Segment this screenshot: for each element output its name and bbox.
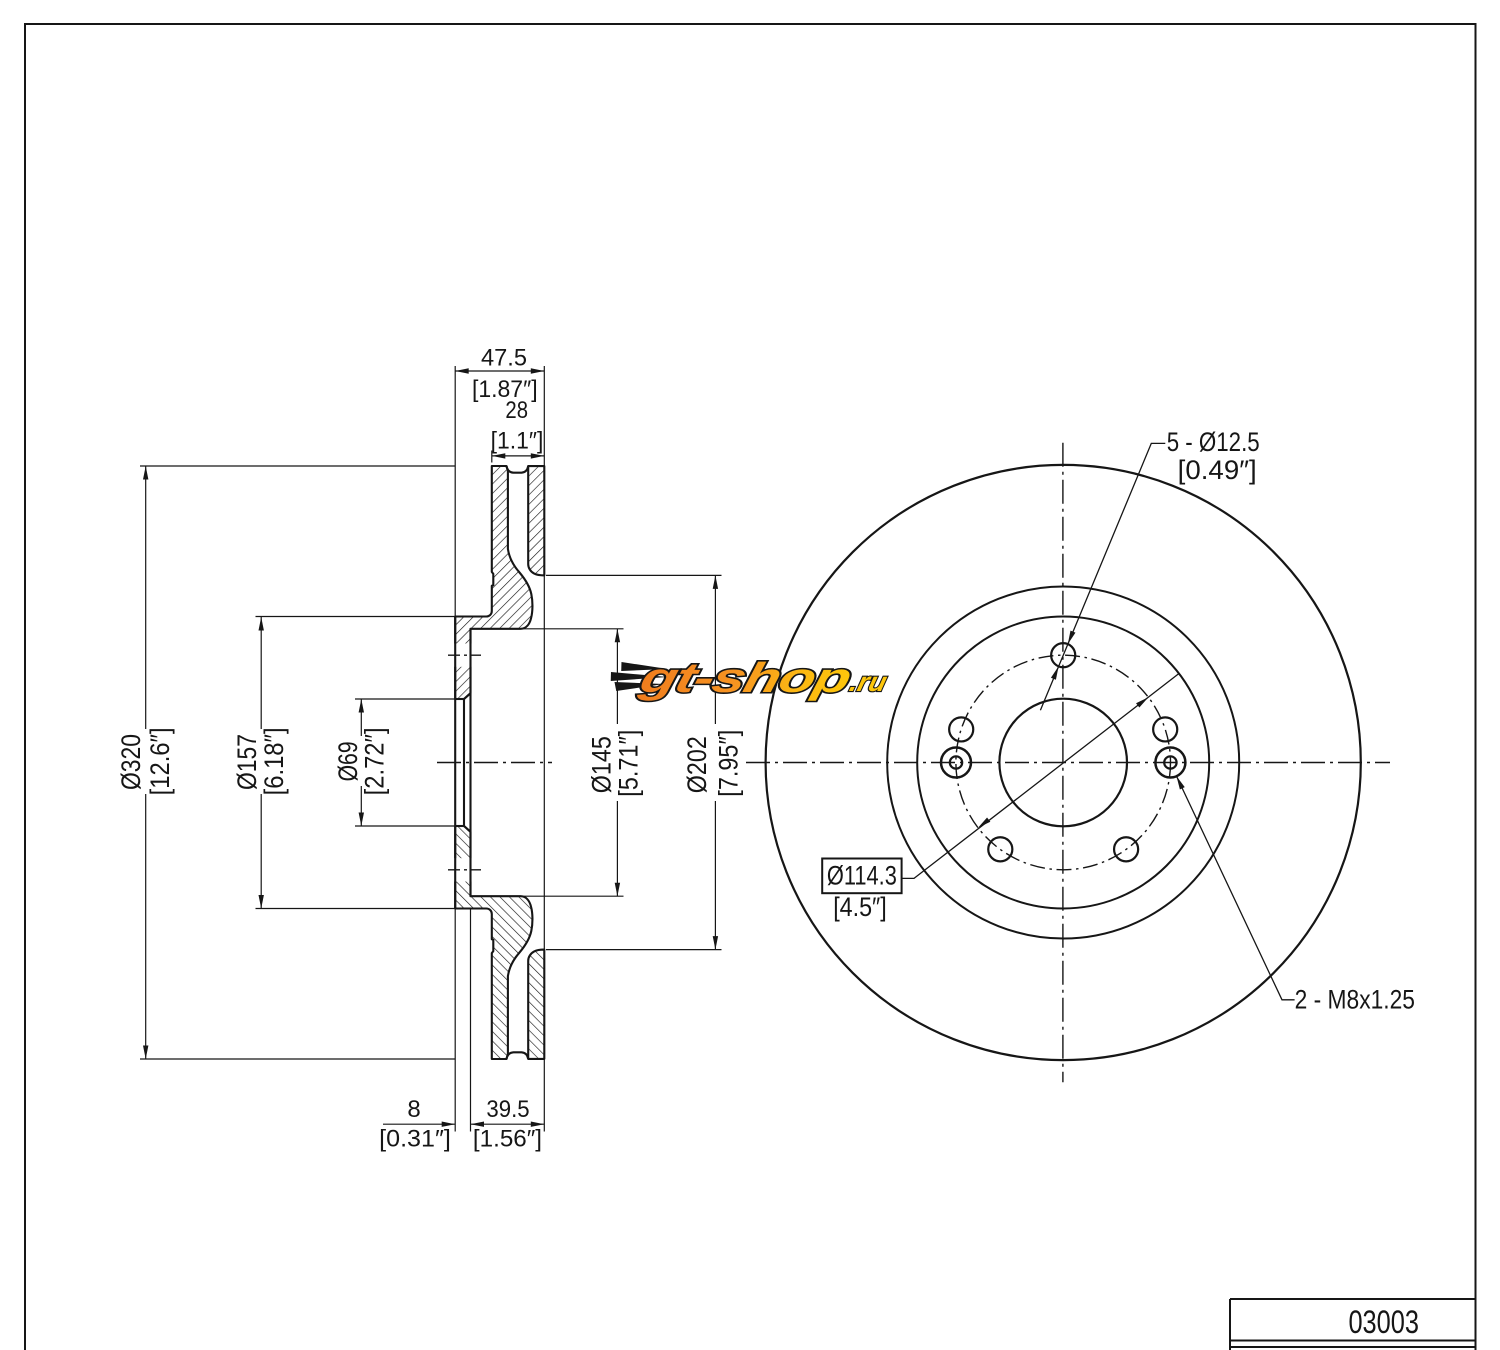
svg-text:[1.1″]: [1.1″] xyxy=(491,428,544,455)
friction surface inner circle xyxy=(887,587,1239,939)
svg-text:[2.72″]: [2.72″] xyxy=(359,727,389,795)
bolt hole upper-left xyxy=(949,717,973,741)
svg-text:Ø202: Ø202 xyxy=(682,736,712,793)
outer diameter circle xyxy=(766,465,1361,1060)
svg-text:[5.71″]: [5.71″] xyxy=(614,730,644,797)
svg-text:gt-shop: gt-shop xyxy=(634,655,855,702)
leader 2 - M8x1.25 threaded holes xyxy=(1177,776,1295,1000)
bore chamfer edge xyxy=(464,693,471,699)
right friction plate hatched xyxy=(528,466,544,575)
vent groove at OD xyxy=(507,466,529,473)
arrows for section dims xyxy=(143,368,718,1127)
svg-text:39.5: 39.5 xyxy=(486,1096,529,1123)
extension line left face long xyxy=(454,366,456,617)
dim O157 xyxy=(256,616,456,618)
svg-text:28: 28 xyxy=(505,397,528,424)
dim 39.5 line + ext xyxy=(470,909,472,1132)
speed lines xyxy=(606,662,671,691)
bolt circle (dash-dot) xyxy=(956,655,1171,870)
hat wall inner face xyxy=(469,629,471,896)
gt-shop.ru logo xyxy=(604,655,894,702)
bolt hole upper-right xyxy=(1153,717,1177,741)
dim O202 xyxy=(546,574,722,576)
stud hole void in flange xyxy=(454,644,472,667)
leader and dimension 5 - O12.5 bolt holes xyxy=(1040,443,1165,710)
bore chamfer circle edge xyxy=(463,699,465,826)
dim O145 xyxy=(521,628,624,630)
horizontal centerline xyxy=(746,762,1390,764)
extension line right face long xyxy=(543,366,545,466)
svg-text:[12.6″]: [12.6″] xyxy=(145,727,175,795)
M8 hole left xyxy=(941,748,971,778)
section centerline xyxy=(437,762,552,764)
M8 hole right xyxy=(1155,748,1185,778)
section half (top), mirrored below xyxy=(448,466,544,699)
dimension texts rotated xyxy=(116,727,743,796)
svg-text:03003: 03003 xyxy=(1348,1304,1419,1340)
svg-text:[4.5″]: [4.5″] xyxy=(833,892,887,922)
bore surface xyxy=(455,698,464,700)
svg-text:[7.95″]: [7.95″] xyxy=(713,730,743,797)
svg-text:[6.18″]: [6.18″] xyxy=(259,727,289,795)
dim O320 xyxy=(140,465,455,467)
svg-text:[1.56″]: [1.56″] xyxy=(473,1126,542,1153)
stud hole centerline xyxy=(448,654,481,656)
svg-text:[0.31″]: [0.31″] xyxy=(379,1126,451,1153)
bolt hole lower-right xyxy=(1114,837,1138,861)
svg-text:2 - M8x1.25: 2 - M8x1.25 xyxy=(1295,984,1415,1014)
bolt circle diameter dimension O114.3 xyxy=(902,673,1180,878)
dim O69 xyxy=(355,698,455,700)
dimension texts horizontal xyxy=(379,345,543,1153)
bolt hole lower-left xyxy=(988,837,1012,861)
title block xyxy=(1230,1299,1476,1350)
center bore circle xyxy=(999,699,1127,827)
bolt hole top xyxy=(1051,643,1075,667)
svg-text:[0.49″]: [0.49″] xyxy=(1178,455,1257,485)
hat flange circle xyxy=(917,617,1209,909)
vertical centerline xyxy=(1062,443,1064,1083)
svg-text:47.5: 47.5 xyxy=(481,345,527,372)
dim 47.5 line xyxy=(455,370,544,372)
hat mounting face xyxy=(454,617,456,909)
svg-text:Ø320: Ø320 xyxy=(116,734,146,790)
svg-text:Ø114.3: Ø114.3 xyxy=(827,861,897,891)
dim 28 ext + line xyxy=(491,451,493,463)
dim 8 line xyxy=(383,1123,455,1125)
svg-text:Ø145: Ø145 xyxy=(586,736,616,793)
svg-text:8: 8 xyxy=(407,1096,420,1123)
svg-text:Ø157: Ø157 xyxy=(232,734,262,790)
rotor hat+left plate hatched body xyxy=(455,466,532,699)
svg-text:5 - Ø12.5: 5 - Ø12.5 xyxy=(1167,427,1260,457)
